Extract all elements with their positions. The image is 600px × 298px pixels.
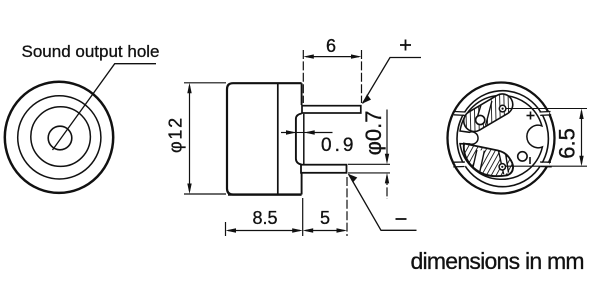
svg-text:Sound output hole: Sound output hole bbox=[22, 42, 160, 61]
svg-text:6: 6 bbox=[326, 36, 336, 56]
svg-text:dimensions in mm: dimensions in mm bbox=[411, 248, 584, 274]
svg-text:φ12: φ12 bbox=[166, 116, 186, 153]
svg-text:6.5: 6.5 bbox=[555, 128, 580, 159]
svg-text:φ0.7: φ0.7 bbox=[361, 111, 386, 156]
svg-text:8.5: 8.5 bbox=[252, 208, 277, 228]
svg-text:0.9: 0.9 bbox=[321, 135, 356, 156]
svg-text:5: 5 bbox=[320, 208, 330, 228]
